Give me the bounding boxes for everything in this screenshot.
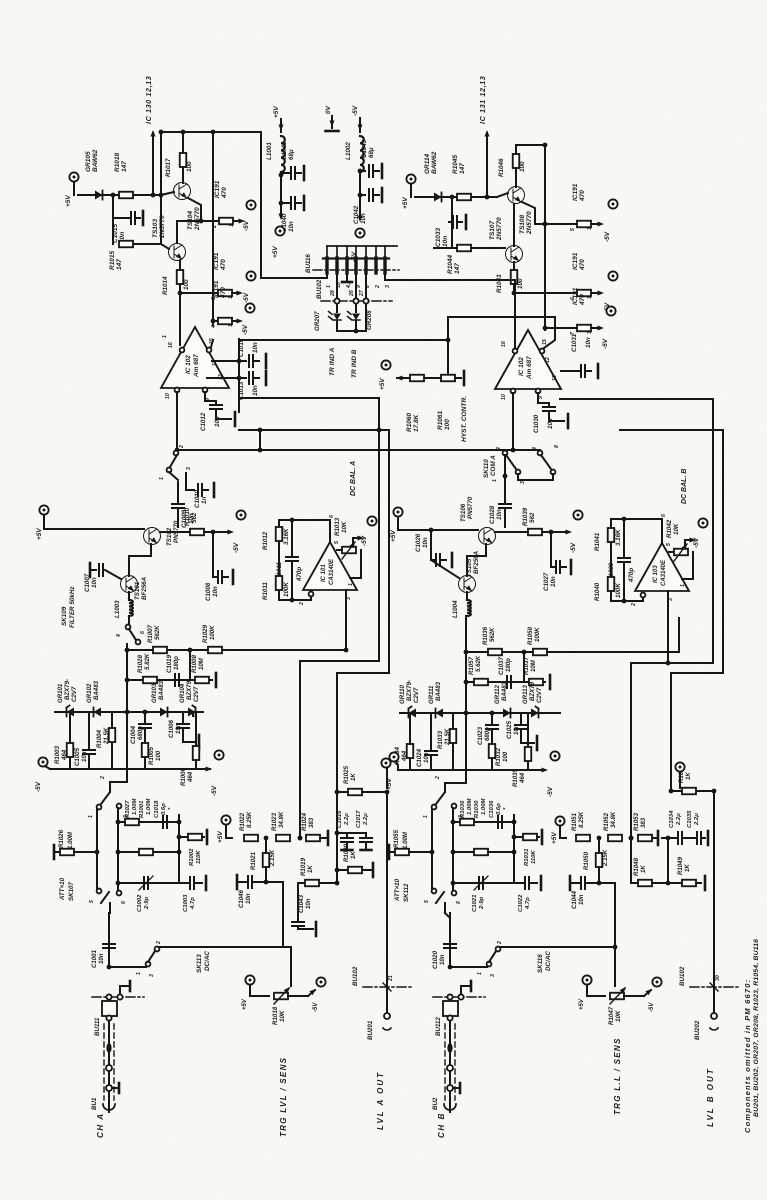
wire loop A outer xyxy=(239,397,379,399)
svg-text:8: 8 xyxy=(554,445,560,448)
svg-text:GR207: GR207 xyxy=(314,311,321,331)
svg-text:CH B: CH B xyxy=(437,1112,446,1138)
cable connector rings A xyxy=(106,1065,112,1071)
svg-text:-5V: -5V xyxy=(361,535,368,546)
capacitor C1026 10n xyxy=(430,530,432,560)
wire pin16 from R1014 xyxy=(179,293,181,345)
resistor R1018 147 xyxy=(119,192,133,199)
resistor R1010 562 xyxy=(190,529,204,536)
svg-text:180p: 180p xyxy=(505,658,512,672)
resistor R1060 17.8K xyxy=(410,375,424,382)
svg-text:10: 10 xyxy=(501,394,507,400)
resistor R1020 1K xyxy=(337,869,347,871)
svg-text:TS106: TS106 xyxy=(460,503,467,522)
wire bottom rail B xyxy=(398,769,545,771)
op-amp IC103 CA3140E xyxy=(635,543,689,591)
connector BU201 xyxy=(384,1013,390,1019)
svg-text:10K: 10K xyxy=(615,1010,622,1022)
svg-text:10n: 10n xyxy=(81,751,88,762)
svg-text:R1033: R1033 xyxy=(437,730,444,749)
svg-text:R1052: R1052 xyxy=(603,812,610,831)
svg-text:Components omitted in PM 6670:: Components omitted in PM 6670: xyxy=(743,979,752,1133)
svg-text:680p: 680p xyxy=(484,727,491,741)
arrow down into L1002 xyxy=(359,118,361,132)
wire pin3 output xyxy=(667,591,669,663)
svg-text:BU102: BU102 xyxy=(679,966,686,986)
arrow -5V xyxy=(234,220,240,222)
inductor L1002 xyxy=(360,136,364,172)
svg-text:R1049: R1049 xyxy=(677,856,684,875)
svg-text:21.5K: 21.5K xyxy=(444,728,451,746)
wire loop B outer xyxy=(560,398,713,400)
svg-text:10n: 10n xyxy=(513,724,520,735)
svg-text:BZX79-: BZX79- xyxy=(64,679,71,700)
svg-text:C1042: C1042 xyxy=(353,205,360,224)
svg-text:1: 1 xyxy=(423,815,429,818)
cable bead B xyxy=(447,1043,452,1053)
arrow -5V xyxy=(592,327,597,329)
svg-text:16: 16 xyxy=(168,342,174,348)
wire LED cathodes xyxy=(336,321,338,331)
svg-text:30: 30 xyxy=(715,975,721,981)
connector pins 28 26 27 xyxy=(334,298,339,303)
svg-text:1.00M: 1.00M xyxy=(481,798,487,815)
wire diode row A xyxy=(55,711,203,713)
svg-text:1: 1 xyxy=(136,972,142,975)
svg-text:C1022: C1022 xyxy=(518,894,524,912)
svg-text:R1060: R1060 xyxy=(406,412,413,432)
svg-text:10n: 10n xyxy=(439,954,446,965)
svg-text:10n: 10n xyxy=(550,576,557,587)
transistor TS107 2N5770 xyxy=(506,246,523,263)
node xyxy=(450,195,455,200)
wire TS102 emitter row xyxy=(160,531,189,533)
resistor R1033 21.5K xyxy=(452,713,454,728)
wire R1046 xyxy=(515,169,517,187)
svg-text:R1024: R1024 xyxy=(301,812,308,831)
wire TS101 source xyxy=(128,592,130,600)
svg-text:5.82K: 5.82K xyxy=(144,653,151,670)
svg-text:C2V7: C2V7 xyxy=(413,687,420,703)
wire R1043 node xyxy=(513,262,515,270)
svg-text:4: 4 xyxy=(532,447,538,451)
svg-text:IC 130 12,13: IC 130 12,13 xyxy=(144,76,153,124)
capacitor C1037 180p xyxy=(507,676,511,688)
svg-text:GR102: GR102 xyxy=(86,683,93,703)
svg-text:C1043: C1043 xyxy=(298,894,305,913)
feedback wire pin1 xyxy=(360,550,362,578)
svg-text:GR114: GR114 xyxy=(424,154,431,174)
svg-text:PN5770: PN5770 xyxy=(467,496,474,519)
svg-text:C1007: C1007 xyxy=(84,573,91,592)
svg-text:1K: 1K xyxy=(640,865,647,873)
svg-text:R1026: R1026 xyxy=(58,829,65,848)
coax cable B xyxy=(449,1021,451,1103)
svg-text:147: 147 xyxy=(459,163,466,174)
wire TS103 collector xyxy=(176,221,178,243)
wire SK110 down xyxy=(504,455,506,502)
svg-text:R1001: R1001 xyxy=(139,801,145,818)
svg-text:147: 147 xyxy=(454,263,461,274)
wire pin10 to SK110 xyxy=(512,393,514,450)
svg-text:BA483: BA483 xyxy=(501,681,508,701)
dash-dot BU102 pin 21 xyxy=(363,986,411,988)
svg-text:1: 1 xyxy=(348,583,354,586)
svg-text:-5V: -5V xyxy=(233,542,240,553)
svg-text:R1015: R1015 xyxy=(109,250,116,270)
svg-text:6: 6 xyxy=(329,515,335,518)
svg-text:3: 3 xyxy=(385,285,391,288)
wire to attenuator column A xyxy=(126,644,128,712)
svg-text:R1013: R1013 xyxy=(334,517,341,536)
attenuator network A row2 xyxy=(118,851,179,853)
wire cluster row1 A xyxy=(127,649,205,651)
svg-text:3.16K: 3.16K xyxy=(283,528,290,545)
wire column x432 xyxy=(431,809,433,889)
inductor L1003 xyxy=(129,600,133,616)
svg-text:BA483: BA483 xyxy=(93,680,100,700)
svg-text:-5V: -5V xyxy=(547,786,554,797)
svg-text:C2V7: C2V7 xyxy=(71,686,78,702)
svg-text:R1025: R1025 xyxy=(343,765,350,784)
svg-text:1: 1 xyxy=(88,815,94,818)
svg-text:-5V: -5V xyxy=(243,220,250,231)
resistor R1012 3.16K xyxy=(278,520,280,526)
node xyxy=(358,169,363,174)
wire xyxy=(280,175,282,203)
svg-text:C1046: C1046 xyxy=(238,889,245,908)
svg-text:1K: 1K xyxy=(307,865,314,873)
capacitor C1047 10n xyxy=(569,876,572,890)
svg-text:4: 4 xyxy=(211,325,217,329)
wire pin6 xyxy=(329,520,331,542)
svg-text:L1004: L1004 xyxy=(452,600,459,618)
svg-text:C1031: C1031 xyxy=(571,333,578,352)
wire TS107 base xyxy=(472,247,505,249)
svg-text:BA483: BA483 xyxy=(435,681,442,701)
svg-text:1: 1 xyxy=(228,296,234,299)
svg-text:BU201, BU202, GR207, GR208, R1: BU201, BU202, GR207, GR208, R1023, R1054… xyxy=(753,939,760,1117)
svg-text:SK116: SK116 xyxy=(537,954,544,973)
resistor IC191 470 (pin 4) xyxy=(211,319,216,324)
svg-text:1: 1 xyxy=(492,479,498,482)
svg-text:L1001: L1001 xyxy=(266,142,273,160)
svg-text:TRG LVL / SENS: TRG LVL / SENS xyxy=(279,1057,288,1137)
resistor R1015 147 xyxy=(119,241,133,248)
node xyxy=(298,836,303,841)
svg-text:C1024: C1024 xyxy=(416,748,423,767)
wire pins to lower connector xyxy=(336,273,338,298)
pin circles IC102A xyxy=(180,348,185,353)
node xyxy=(264,836,269,841)
0V stub xyxy=(331,116,333,128)
resistor R1017 100 xyxy=(180,153,187,167)
svg-text:0V: 0V xyxy=(325,105,332,114)
zener GR101 BZX79-C2V7 xyxy=(67,708,75,717)
svg-text:R1045: R1045 xyxy=(452,154,459,174)
svg-text:3.16K: 3.16K xyxy=(615,529,622,546)
svg-text:2.2μ: 2.2μ xyxy=(694,813,700,826)
wire trigger line A xyxy=(159,946,291,948)
wire to attenuator column B xyxy=(465,616,467,712)
zener GR110 BZX79-C2V7 xyxy=(409,709,417,718)
svg-text:BZX79: BZX79 xyxy=(529,681,536,701)
wire LVL B OUT feed xyxy=(713,791,715,1012)
wire cluster row1 B xyxy=(466,651,583,653)
svg-text:R1041: R1041 xyxy=(594,532,601,551)
wire hyst node xyxy=(447,317,449,373)
terminal -5V rail A left xyxy=(38,757,47,766)
resistor R1023 34.8K xyxy=(276,835,290,842)
svg-text:2: 2 xyxy=(100,776,106,780)
svg-text:26: 26 xyxy=(349,290,355,297)
capacitor C1041 68u xyxy=(281,172,289,174)
stub row2 B xyxy=(549,675,552,689)
svg-text:-5V: -5V xyxy=(602,338,609,349)
arrow to IC130 12,13 xyxy=(152,133,154,195)
wire trigger divider out xyxy=(266,881,283,883)
svg-text:2N5770: 2N5770 xyxy=(526,211,533,235)
inductor L1004 xyxy=(467,600,471,616)
potentiometer R1042 10K xyxy=(669,551,675,553)
svg-text:R1007: R1007 xyxy=(147,624,154,643)
svg-text:10n: 10n xyxy=(98,953,105,964)
svg-text:383: 383 xyxy=(308,817,315,828)
pin circles IC102B xyxy=(513,349,518,354)
switch SK107 lower xyxy=(97,889,102,894)
svg-text:IC 101: IC 101 xyxy=(321,564,327,582)
wire column x453 xyxy=(452,808,454,891)
svg-text:IC 103: IC 103 xyxy=(653,565,659,583)
attenuator network B row2 xyxy=(453,851,514,853)
capacitor C1030 10n (pin 9) xyxy=(538,393,549,403)
arrow +5V distribution xyxy=(280,203,282,217)
svg-text:10n: 10n xyxy=(252,385,259,396)
svg-text:-5V: -5V xyxy=(313,1002,319,1012)
svg-text:100K: 100K xyxy=(283,582,290,597)
wire pin3 output xyxy=(345,590,347,650)
node xyxy=(629,836,634,841)
svg-text:383: 383 xyxy=(640,817,647,828)
svg-text:100: 100 xyxy=(519,161,526,172)
svg-text:2.2μ: 2.2μ xyxy=(363,813,369,826)
svg-text:DC BAL. B: DC BAL. B xyxy=(681,469,688,504)
arrow down into L1001 xyxy=(280,119,282,132)
capacitor C1007 10n xyxy=(89,563,92,577)
svg-text:147: 147 xyxy=(121,161,128,172)
diode GR103 BA483 xyxy=(160,708,168,717)
svg-text:-5V: -5V xyxy=(352,105,359,116)
resistor R1049 1K xyxy=(668,882,681,884)
svg-text:R1057: R1057 xyxy=(468,656,475,675)
capacitor C1033 10n xyxy=(451,197,453,222)
dash-dot connector boundary BU102 xyxy=(321,300,392,302)
svg-text:IC 131 12,13: IC 131 12,13 xyxy=(478,76,487,124)
capacitor C1029 470p xyxy=(623,519,625,556)
svg-text:3: 3 xyxy=(490,974,496,977)
svg-text:1: 1 xyxy=(159,477,165,480)
wire bus A row1 extension xyxy=(205,649,346,651)
capacitors C1034/C1035 2.2u xyxy=(662,837,676,839)
svg-text:TR IND A: TR IND A xyxy=(329,347,336,376)
switch SK107 upper xyxy=(101,792,110,804)
wire input rail B xyxy=(397,517,399,530)
wire diode row B xyxy=(400,712,560,714)
svg-text:110K: 110K xyxy=(196,850,202,864)
capacitor C1022 4.7p xyxy=(514,882,523,884)
svg-text:10n: 10n xyxy=(214,416,221,427)
wire bottom rail A xyxy=(50,768,210,770)
resistor R1035 464 xyxy=(527,713,529,746)
svg-text:C1008: C1008 xyxy=(205,582,212,601)
resistor R1005 100 xyxy=(142,743,149,757)
cable bead A xyxy=(106,1043,111,1053)
svg-text:C1034: C1034 xyxy=(669,810,675,828)
wire pin15 feedback xyxy=(544,317,555,348)
wire loop B inner xyxy=(620,429,723,431)
svg-text:R1043: R1043 xyxy=(496,274,503,293)
svg-text:BU102: BU102 xyxy=(352,966,359,986)
wire cluster row2 A xyxy=(127,679,212,681)
svg-text:562: 562 xyxy=(191,512,198,523)
svg-text:464: 464 xyxy=(519,772,526,784)
transistor TS108 2N5770 xyxy=(508,187,525,204)
node xyxy=(279,173,284,178)
svg-text:GR103: GR103 xyxy=(151,683,158,703)
potentiometer R1047 10K xyxy=(582,975,591,984)
svg-text:-5V: -5V xyxy=(570,542,577,553)
svg-text:SK110: SK110 xyxy=(483,459,490,478)
diode GR111 BA483 xyxy=(436,709,444,718)
svg-text:GR111: GR111 xyxy=(428,685,435,704)
svg-text:10M: 10M xyxy=(530,659,537,672)
svg-text:28: 28 xyxy=(330,290,336,297)
svg-text:LVL A OUT: LVL A OUT xyxy=(376,1071,385,1130)
node xyxy=(279,201,284,206)
terminal +5V (channel A bias) xyxy=(69,172,78,181)
svg-text:5: 5 xyxy=(424,900,430,903)
svg-text:R1048: R1048 xyxy=(633,857,640,876)
attenuator network A row1 xyxy=(118,821,179,823)
svg-text:R1030: R1030 xyxy=(474,800,480,818)
svg-text:R1002: R1002 xyxy=(189,848,195,866)
resistor R1044 147 xyxy=(457,245,471,252)
svg-text:-5V: -5V xyxy=(649,1002,655,1012)
svg-text:2: 2 xyxy=(375,285,381,289)
svg-text:562K: 562K xyxy=(154,625,161,640)
resistor R1026 1.00M xyxy=(53,845,56,859)
svg-text:R1010: R1010 xyxy=(184,507,191,526)
svg-text:R1036: R1036 xyxy=(460,800,466,818)
svg-text:6: 6 xyxy=(661,514,667,517)
wire main bus COM xyxy=(177,449,540,451)
svg-text:5: 5 xyxy=(666,543,672,546)
svg-text:BZX79: BZX79 xyxy=(186,680,193,700)
terminal +5V trigger A xyxy=(221,815,230,824)
svg-text:C1003: C1003 xyxy=(183,894,189,912)
wire to SK116 xyxy=(449,913,451,967)
svg-text:16: 16 xyxy=(501,341,507,347)
svg-text:C1006: C1006 xyxy=(168,719,175,738)
resistor R1019 1K xyxy=(298,882,304,884)
svg-text:C1033: C1033 xyxy=(435,227,442,247)
svg-text:R1053: R1053 xyxy=(633,812,640,831)
wire emitter row y221 xyxy=(177,220,218,222)
resistor R1041 3.16K xyxy=(610,519,612,527)
svg-text:BAW62: BAW62 xyxy=(431,151,438,174)
svg-text:1K: 1K xyxy=(350,773,357,781)
svg-text:3: 3 xyxy=(668,598,674,601)
wire xyxy=(359,171,361,195)
svg-text:1.00M: 1.00M xyxy=(67,831,74,849)
diode GR114 BAW62 xyxy=(434,193,442,202)
svg-text:2: 2 xyxy=(212,225,218,229)
svg-text:1.00M: 1.00M xyxy=(467,798,473,815)
resistor R1045 147 xyxy=(457,194,471,201)
svg-text:21.5K: 21.5K xyxy=(103,727,110,745)
svg-text:CH A: CH A xyxy=(96,1112,105,1138)
resistor R1053 383 xyxy=(638,835,652,842)
svg-text:R1017: R1017 xyxy=(165,158,172,177)
svg-text:C1019: C1019 xyxy=(166,654,173,673)
wire TS108 base xyxy=(497,193,508,197)
svg-text:L1002: L1002 xyxy=(345,142,352,160)
svg-text:110K: 110K xyxy=(531,850,537,864)
svg-text:TS103: TS103 xyxy=(152,218,159,238)
svg-text:3: 3 xyxy=(520,481,526,484)
wire column to SK112 xyxy=(465,713,467,783)
arrow -5V (R1042) xyxy=(684,540,686,545)
wire column to SK107 xyxy=(126,712,128,782)
svg-text:R1029: R1029 xyxy=(202,624,209,643)
svg-text:GR208: GR208 xyxy=(366,310,373,330)
resistor R1024 383 xyxy=(306,835,320,842)
resistor IC191 470 (pin 6) xyxy=(514,292,576,294)
wire pin10 to bus xyxy=(176,392,178,450)
svg-text:IC 102: IC 102 xyxy=(518,357,525,376)
svg-text:10n: 10n xyxy=(245,893,252,904)
resistor R1007 562K xyxy=(153,647,167,654)
svg-text:1.00M: 1.00M xyxy=(132,798,138,815)
transistor TS101 BF256A xyxy=(121,576,138,593)
trimmer C1002 2-9p xyxy=(118,882,179,884)
svg-text:BAW62: BAW62 xyxy=(92,149,99,172)
node xyxy=(358,193,363,198)
svg-text:34.8K: 34.8K xyxy=(278,811,285,828)
capacitor C1046 10n xyxy=(236,875,239,889)
svg-text:2.15K: 2.15K xyxy=(269,849,276,867)
svg-text:10n: 10n xyxy=(423,752,430,763)
attenuator network B row1 xyxy=(453,821,514,823)
ground hook A xyxy=(120,986,128,994)
capacitor C1028 10n xyxy=(504,478,506,503)
wire top rail y132 xyxy=(161,131,261,133)
svg-text:R1047: R1047 xyxy=(608,1006,615,1025)
coax cable A xyxy=(108,1021,110,1103)
svg-text:-5V: -5V xyxy=(242,324,249,335)
terminal +5V (R1056) xyxy=(675,762,684,771)
svg-text:1n: 1n xyxy=(201,497,208,504)
arrow -5V xyxy=(233,292,238,294)
svg-text:10n: 10n xyxy=(288,221,295,232)
resistor R1056 1K xyxy=(671,790,681,792)
svg-text:IC191: IC191 xyxy=(572,287,579,305)
svg-text:BU1: BU1 xyxy=(91,1097,98,1110)
op-amp IC102 Am687 (channel A comparator) xyxy=(161,327,229,388)
wire TS106 base xyxy=(485,544,487,556)
svg-text:Am 687: Am 687 xyxy=(526,356,533,380)
svg-text:+5V: +5V xyxy=(65,195,72,207)
